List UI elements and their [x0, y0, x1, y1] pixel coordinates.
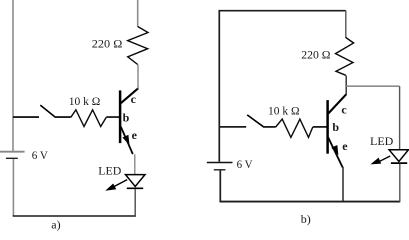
transistor Q1 emitter lead — [121, 127, 133, 155]
wire: resistor R4 down to collector node — [345, 76, 347, 95]
wire: bottom return (a) — [13, 215, 136, 217]
LED D2 cathode bar — [391, 162, 407, 164]
resistor R3 10 kOhm zigzag — [276, 119, 313, 137]
wire: top rail (b) — [219, 10, 345, 12]
svg-text:6 V: 6 V — [237, 159, 254, 171]
battery B1 negative plate — [6, 157, 18, 159]
wire: base stub from rail to switch (b) — [219, 126, 246, 128]
LED D2 emission arrow shaft — [378, 156, 391, 162]
wire: left rail below battery (b) — [219, 170, 221, 202]
svg-text:b): b) — [301, 212, 311, 226]
wire: top feed of 220 resistor (a) — [137, 0, 139, 27]
transistor Q1 base bar — [119, 90, 122, 143]
svg-text:c: c — [341, 103, 347, 117]
svg-text:b: b — [332, 120, 339, 134]
LED D1 triangle — [126, 175, 146, 187]
svg-text:LED: LED — [98, 165, 121, 177]
svg-text:e: e — [132, 128, 138, 142]
transistor Q2 emitter arrowhead — [331, 145, 338, 155]
wire: switch to resistor R3 — [263, 126, 276, 128]
svg-text:a): a) — [51, 217, 60, 231]
resistor R2 220 Ohm zigzag — [128, 27, 148, 65]
transistor Q2 collector lead — [328, 94, 346, 113]
wire: left rail (b) top — [218, 10, 220, 162]
wire: switch to resistor R1 — [55, 116, 71, 118]
svg-text:10 k Ω: 10 k Ω — [268, 106, 300, 118]
wire: base stub from rail to switch — [13, 116, 39, 118]
LED D1 cathode bar — [127, 187, 143, 189]
wire: emitter down to bottom return (b) — [342, 167, 344, 202]
wire: bottom return (b) — [220, 201, 401, 203]
switch S1 blade (open) — [40, 105, 55, 117]
resistor R4 220 Ohm zigzag — [336, 38, 354, 76]
wire: right drop from top rail to resistor R4 — [345, 11, 347, 39]
battery B2 negative plate — [214, 169, 226, 171]
LED D2 triangle — [389, 150, 408, 162]
svg-text:10 k Ω: 10 k Ω — [69, 96, 101, 108]
svg-text:220 Ω: 220 Ω — [301, 49, 330, 61]
transistor Q1 emitter arrowhead — [122, 135, 129, 145]
wire: left rail below battery — [12, 159, 14, 216]
LED D2 emission arrowhead — [370, 158, 381, 165]
wire: LED branch drop — [399, 86, 401, 150]
node: collector junction branch to LED — [346, 85, 399, 87]
battery B2 (6 V) positive plate — [207, 162, 233, 164]
svg-text:c: c — [131, 92, 137, 106]
wire: resistor R3 to base (b) — [313, 126, 327, 128]
svg-text:b: b — [123, 111, 130, 125]
resistor R1 10 kOhm zigzag — [71, 110, 107, 127]
wire: emitter to LED anode — [134, 154, 136, 174]
transistor Q1 collector lead — [121, 88, 139, 103]
LED D1 emission arrow shaft — [113, 180, 128, 188]
battery B1 (6 V) positive plate — [0, 151, 25, 153]
LED D1 emission arrowhead — [105, 184, 116, 191]
svg-text:6 V: 6 V — [32, 150, 49, 162]
wire: LED cathode to bottom return — [134, 189, 136, 216]
switch S2 blade (open) — [247, 115, 263, 127]
svg-text:LED: LED — [370, 136, 393, 148]
transistor Q2 base bar — [326, 100, 329, 154]
svg-text:220 Ω: 220 Ω — [92, 39, 123, 51]
transistor Q2 emitter lead — [328, 137, 343, 167]
wire: left supply rail (top, from image edge to battery) — [12, 0, 14, 151]
wire: resistor R2 to collector — [137, 65, 139, 89]
wire: resistor R1 to base — [106, 116, 119, 118]
svg-text:e: e — [342, 139, 348, 153]
wire: LED cathode to bottom return (b) — [399, 164, 401, 202]
